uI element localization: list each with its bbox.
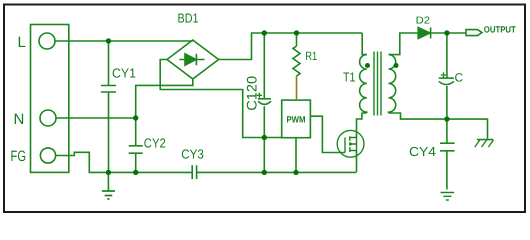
svg-text:D2: D2 — [416, 15, 431, 26]
svg-text:C120: C120 — [243, 76, 259, 111]
svg-text:CY1: CY1 — [112, 66, 136, 81]
svg-text:FG: FG — [11, 148, 27, 165]
svg-text:N: N — [14, 111, 25, 128]
svg-text:R1: R1 — [305, 49, 317, 63]
svg-text:OUTPUT: OUTPUT — [484, 24, 516, 34]
svg-text:T1: T1 — [343, 70, 356, 85]
svg-text:BD1: BD1 — [178, 10, 199, 25]
svg-text:CY3: CY3 — [181, 147, 204, 162]
svg-text:CY4: CY4 — [409, 144, 436, 159]
svg-text:L: L — [18, 34, 26, 51]
svg-text:CY2: CY2 — [144, 136, 166, 151]
svg-text:C: C — [455, 70, 464, 84]
svg-text:PWM: PWM — [287, 115, 306, 125]
